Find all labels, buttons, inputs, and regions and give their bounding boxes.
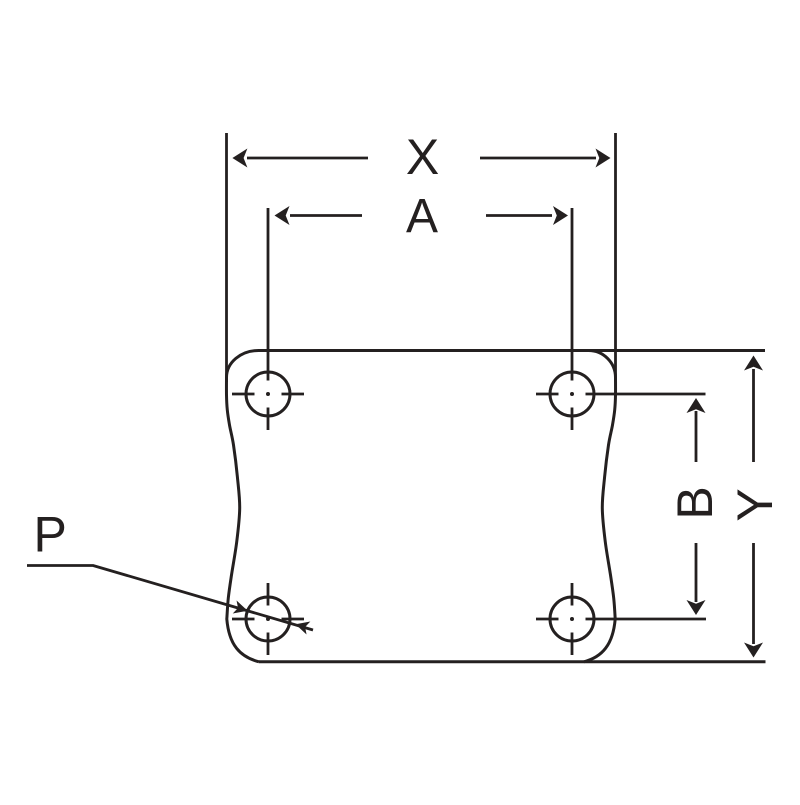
dimension Y bottom arrow <box>744 643 763 658</box>
centerlines hole bottom-left <box>232 583 304 655</box>
dimension B line top segment <box>695 411 698 462</box>
P leader line <box>27 566 313 631</box>
plate left edge (concave, with bottom-left corner) <box>226 378 259 662</box>
hole bottom-right <box>550 597 594 641</box>
dimension B top arrow <box>687 398 706 413</box>
plate top-left corner arc <box>227 351 259 378</box>
dimension Y line top segment <box>752 369 755 462</box>
centerlines hole top-left (vertical arm doubles as A left extension) <box>232 208 304 430</box>
svg-text:A: A <box>406 190 438 243</box>
svg-text:X: X <box>406 129 439 185</box>
dimension Y top arrow <box>744 356 763 371</box>
centerlines hole top-right (vertical arm doubles as A right extension, right arm as B top extension) <box>536 208 706 430</box>
plate top-right corner arc <box>589 351 616 378</box>
dimension Y line bottom segment <box>752 543 755 644</box>
dimension B line bottom segment <box>695 543 698 602</box>
dimension A line right segment <box>486 214 552 217</box>
svg-text:B: B <box>667 486 723 519</box>
plate right edge (concave, with bottom-right corner) <box>584 378 616 662</box>
X left extension line <box>225 133 228 382</box>
dimension A right arrow <box>553 206 568 225</box>
dimension X line left segment <box>247 157 368 160</box>
svg-text:Y: Y <box>727 488 783 521</box>
plate bottom edge (extended right as Y bottom extension line) <box>259 660 766 663</box>
dimension B bottom arrow <box>687 600 706 615</box>
dimension X left arrow <box>232 149 247 168</box>
hole top-right <box>550 372 594 416</box>
hole bottom-left <box>246 597 290 641</box>
svg-text:P: P <box>34 507 67 563</box>
P leader arrow at hole left edge <box>233 600 250 617</box>
dimension X line right segment <box>480 157 596 160</box>
P leader arrow at hole right edge <box>294 618 311 635</box>
dimension A left arrow <box>275 206 290 225</box>
dimension A line left segment <box>290 214 362 217</box>
X right extension line <box>614 133 617 378</box>
dimension X right arrow <box>596 149 611 168</box>
centerlines hole bottom-right (right arm doubles as B bottom extension) <box>536 583 706 655</box>
hole top-left <box>246 372 290 416</box>
plate top edge (extended right as Y top extension line) <box>259 349 766 352</box>
